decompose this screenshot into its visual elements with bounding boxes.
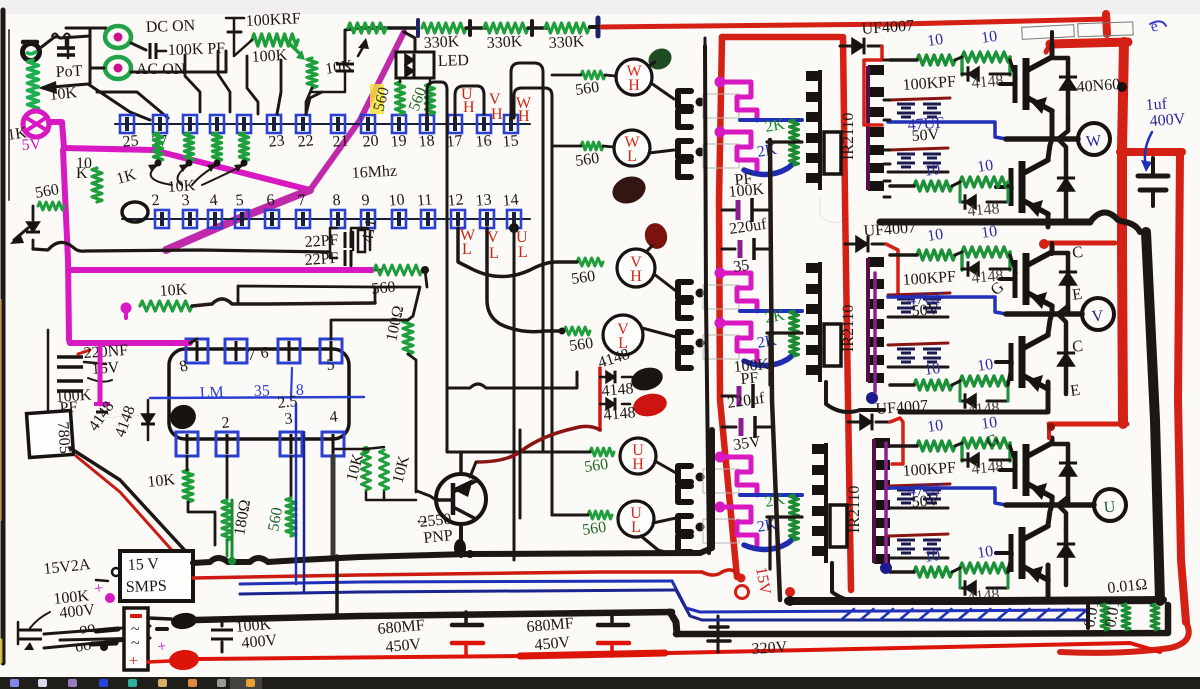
red top second bus — [1050, 42, 1128, 44]
resistor 180 lm — [222, 500, 232, 540]
svg-text:10: 10 — [980, 28, 998, 47]
svg-text:3: 3 — [284, 410, 293, 428]
svg-text:6: 6 — [266, 192, 275, 210]
wire pin3 down — [290, 456, 293, 498]
svg-text:L: L — [627, 148, 637, 165]
svg-text:400V: 400V — [1149, 111, 1186, 130]
resistor 330K a — [348, 23, 386, 33]
wire gate lo V — [1008, 362, 1012, 385]
IGBT high U — [1013, 451, 1018, 489]
svg-text:18: 18 — [418, 132, 435, 150]
svg-text:LED: LED — [438, 52, 470, 70]
wire emitter hi W — [1050, 112, 1055, 139]
svg-text:H: H — [632, 456, 644, 473]
black blob a — [629, 364, 666, 394]
optocoupler pins V2 — [678, 332, 691, 348]
svg-text:16Mhz: 16Mhz — [351, 163, 397, 182]
curve pin13 to VL — [487, 228, 562, 332]
svg-text:50V: 50V — [911, 301, 940, 320]
LED diode 2 — [405, 65, 414, 77]
black bus C — [676, 605, 1168, 634]
optocoupler pins U1 — [678, 466, 691, 482]
IGBT high W — [1013, 65, 1018, 103]
minus sign — [157, 627, 167, 631]
wire diode top hi V — [1052, 251, 1068, 256]
wire top to DC LED — [66, 28, 106, 34]
wire WH blob — [649, 62, 655, 66]
node 15V marker — [737, 574, 746, 583]
cap magenta 100KPF — [94, 402, 110, 406]
wire diode top hi W — [1052, 56, 1068, 61]
svg-text:V: V — [487, 229, 499, 246]
IR2110 U box — [830, 505, 847, 547]
svg-text:100KRF: 100KRF — [245, 10, 301, 30]
label 100K 400V 2 — [717, 624, 720, 644]
output node line W — [1006, 136, 1078, 142]
svg-text:8: 8 — [332, 192, 341, 210]
black blob dc — [170, 611, 198, 630]
svg-text:10K: 10K — [159, 281, 188, 300]
top line seg2 — [466, 26, 486, 30]
IGBT low W — [1009, 168, 1014, 206]
svg-text:4148: 4148 — [971, 458, 1004, 478]
optocoupler pins W1 — [678, 91, 691, 107]
resistor 10K a4 — [362, 452, 371, 490]
arrow tl — [14, 228, 28, 240]
diode 4148 lo U — [965, 581, 976, 595]
svg-text:PoT: PoT — [55, 63, 83, 81]
resistor 10K b4 — [380, 450, 389, 490]
wire pin1 down — [186, 456, 189, 470]
output node line V — [1006, 311, 1082, 317]
svg-text:50V: 50V — [911, 126, 940, 145]
wire collector hi W — [1050, 44, 1055, 56]
left vertical wire — [47, 330, 50, 440]
wire WL to opto — [649, 150, 674, 153]
svg-text:12: 12 — [447, 191, 464, 209]
bridge labels — [130, 614, 142, 618]
resistor 10 c W — [914, 181, 952, 191]
blue wire mid V — [888, 297, 1006, 314]
wire pot to network — [39, 36, 90, 49]
wire cap rail lo V — [888, 366, 948, 369]
wire pin13 dot — [509, 223, 519, 233]
magenta branch down — [98, 343, 103, 404]
diode UF4007 V — [856, 236, 868, 252]
svg-text:560: 560 — [581, 519, 607, 539]
svg-text:100K: 100K — [251, 47, 288, 66]
red bootstrap U — [890, 418, 903, 464]
svg-text:4: 4 — [209, 192, 218, 210]
diode 4148 lo V — [965, 394, 976, 408]
resistor small green tl — [38, 202, 64, 210]
maroon line lo U — [888, 534, 948, 536]
wire 560 net — [375, 287, 420, 320]
dark red S curve — [478, 426, 600, 462]
wire fan 5 — [277, 60, 281, 114]
svg-text:330K: 330K — [548, 33, 585, 52]
wire cap rail hi U — [888, 507, 948, 510]
wire 7805 down — [70, 448, 190, 556]
resistor 560 WH — [581, 71, 605, 79]
junction bar 2 — [468, 21, 472, 35]
wire T W — [768, 142, 771, 194]
shunt top wire — [1096, 600, 1163, 601]
resistor 100K top — [252, 34, 298, 46]
LED diode 1 — [405, 54, 414, 66]
IR2110 W box — [824, 132, 841, 174]
pullup arrows — [151, 166, 172, 185]
black hop over red — [1090, 212, 1140, 232]
resistor 10 c U — [914, 567, 952, 577]
wire cap rail hi W — [888, 121, 948, 124]
red smps out — [193, 572, 702, 578]
hatch end tick — [1086, 604, 1090, 628]
wire gate hi U — [1010, 446, 1016, 464]
black N vertical rail — [1146, 232, 1160, 601]
svg-text:4148: 4148 — [967, 200, 1000, 220]
node U L — [618, 501, 654, 537]
wire 180 down — [226, 540, 229, 556]
svg-text:K: K — [76, 165, 88, 182]
resistor 10 d W — [960, 177, 1008, 187]
svg-text:10: 10 — [926, 31, 944, 50]
node W H — [616, 59, 652, 95]
diode UF4007 U — [860, 414, 872, 430]
svg-text:U: U — [1103, 499, 1116, 517]
red jog to outer — [1120, 148, 1182, 156]
diode 4148 hi V — [968, 262, 979, 276]
wire fan 4 — [247, 56, 258, 114]
wire tl diode — [32, 206, 35, 220]
AC ON LED dot — [114, 64, 123, 73]
purple vertical V — [873, 273, 877, 392]
resistor 2K pair W — [790, 120, 799, 142]
wire emitter hi V — [1050, 307, 1055, 314]
junction cross end — [596, 18, 601, 36]
resistor 560 left — [92, 168, 102, 202]
svg-text:25: 25 — [122, 132, 139, 150]
wire UL down to bus — [641, 536, 668, 553]
DC ON LED dot — [114, 33, 123, 42]
wire led res — [399, 78, 402, 82]
diode 4148 a — [606, 371, 615, 383]
resistor 10K pullup 1 — [154, 133, 163, 161]
red top bus — [602, 19, 1108, 27]
MCU bottom pin rail — [122, 218, 530, 220]
wire gate hi V — [1010, 255, 1016, 273]
svg-text:2K: 2K — [756, 332, 779, 352]
wire emitter hi U — [1050, 498, 1055, 505]
svg-text:560: 560 — [583, 456, 609, 476]
svg-text:7: 7 — [247, 346, 256, 364]
dropper 448 to UH row — [447, 390, 590, 452]
resistor 10K below pot — [28, 60, 39, 110]
junction bar 1 — [416, 20, 420, 36]
wire pin5 up — [331, 320, 408, 339]
crystal 411 — [358, 230, 365, 252]
svg-text:~: ~ — [131, 635, 140, 652]
black top bank stubs W — [884, 59, 890, 62]
resistor 560 lm — [286, 498, 296, 536]
top light strip — [0, 0, 1200, 14]
PNP arrow — [451, 483, 456, 515]
svg-text:4: 4 — [329, 408, 338, 426]
resistor 10 d V — [960, 376, 1008, 386]
cap 100K pf left — [57, 379, 83, 383]
svg-text:V: V — [1091, 308, 1104, 326]
svg-text:H: H — [518, 108, 530, 125]
LM358 body — [169, 349, 349, 439]
svg-text:320V: 320V — [751, 639, 788, 658]
svg-text:330K: 330K — [423, 33, 460, 52]
wire collector hi V — [1050, 243, 1055, 251]
blue hatched bus — [700, 610, 1085, 612]
svg-text:560: 560 — [574, 79, 600, 99]
wire 5V to rail — [49, 122, 310, 190]
wire pin22 bend — [306, 92, 322, 114]
wire fan 3 — [218, 51, 230, 112]
shunt resistor 1 — [1101, 604, 1109, 630]
diode 4148 b — [606, 398, 615, 410]
svg-text:11: 11 — [416, 191, 433, 209]
svg-text:PNP: PNP — [423, 527, 454, 547]
wire diode bot hi U — [1058, 497, 1068, 505]
blue wire V — [740, 309, 802, 313]
svg-text:10: 10 — [980, 223, 998, 242]
svg-text:22PF: 22PF — [304, 250, 339, 269]
wire UL to opto — [653, 518, 676, 523]
resistor 10 c V — [914, 380, 952, 390]
wire diode join lo W — [1058, 139, 1066, 163]
wire 10K tops — [333, 448, 366, 451]
blue wire W — [740, 118, 802, 122]
red bottom bus — [198, 643, 1160, 659]
capacitor at pot — [57, 46, 75, 50]
resistor 10 a W — [917, 55, 955, 65]
svg-text:L: L — [489, 245, 499, 262]
loop pin17 — [455, 86, 484, 118]
MCU pin1 circle — [122, 202, 148, 222]
svg-text:L: L — [631, 519, 641, 536]
svg-text:40N60: 40N60 — [1076, 76, 1121, 96]
left page edge shadow — [1, 10, 6, 663]
wire right net lm — [408, 354, 416, 492]
capacitor 1uf — [1151, 158, 1155, 176]
resistor 560 led2 — [426, 84, 435, 114]
red rail right vertical — [843, 37, 851, 590]
svg-text:AC ON: AC ON — [136, 61, 186, 78]
DC ON LED ring — [105, 26, 131, 48]
svg-text:15 V: 15 V — [127, 555, 160, 574]
wire gate lo U — [1008, 553, 1012, 572]
node W — [1078, 123, 1110, 155]
wire LED top — [404, 32, 415, 52]
cap pair lo V — [897, 348, 915, 351]
wire VH to opto — [654, 274, 676, 291]
wire emitter lo W — [1046, 215, 1051, 227]
svg-text:4148: 4148 — [971, 72, 1004, 92]
blue arrow 1uf — [1145, 132, 1152, 166]
MCU top pin rail blue — [115, 123, 530, 125]
svg-text:10: 10 — [976, 543, 994, 562]
shunt resistor 2 — [1122, 604, 1130, 630]
black U emitter join — [1046, 565, 1051, 601]
resistor 330K d — [545, 23, 589, 33]
loop pin15b — [514, 88, 552, 515]
wire hop lm — [192, 299, 375, 306]
MCU top pins 25..15 — [120, 115, 134, 133]
resistor 2K pair V — [790, 311, 799, 333]
svg-text:H: H — [630, 268, 642, 285]
green bracket W — [960, 57, 963, 75]
MCU bottom pins 1..14 — [155, 210, 169, 228]
node V L — [603, 315, 643, 355]
black emitter bus bottom — [788, 600, 1163, 601]
resistor 10 a V — [917, 250, 955, 260]
blue arc U — [744, 538, 794, 550]
IGBT low U — [1009, 534, 1014, 572]
dropper 543 bend — [543, 451, 565, 453]
svg-text:10: 10 — [926, 226, 944, 245]
wire corner down — [312, 71, 345, 92]
svg-text:↔: ↔ — [414, 511, 430, 528]
svg-text:23: 23 — [268, 132, 285, 150]
green bracket V — [960, 252, 963, 270]
red rail left top corner — [722, 34, 840, 41]
red bottom thick part — [520, 653, 665, 656]
blue verticals — [295, 404, 298, 584]
capacitor 100KPF sw — [149, 43, 152, 59]
SMPS box — [120, 551, 193, 601]
wire gate lo W — [1008, 186, 1012, 189]
IC IR2110 V right pins — [868, 257, 884, 267]
wire stub left hi U — [890, 444, 917, 448]
LED box — [396, 52, 434, 78]
blue step down — [672, 581, 700, 612]
red feed W collector — [1050, 32, 1054, 44]
AC ON LED ring — [105, 57, 131, 79]
wire dc minus — [148, 618, 171, 619]
crystal wires — [351, 228, 368, 240]
resistor 10K lm — [140, 301, 192, 311]
red hook 15V — [702, 570, 738, 577]
maroon line hi U — [888, 484, 950, 486]
svg-text:10: 10 — [923, 161, 941, 180]
diode 4148 lm — [147, 400, 150, 440]
wire gate hi W — [1010, 60, 1016, 78]
pot squiggle label — [52, 34, 70, 39]
junction cap wires — [234, 32, 252, 56]
wire collector lo W — [1048, 139, 1052, 159]
wire stub left lo U — [890, 570, 914, 574]
gray wire pin4 — [331, 456, 336, 556]
cap pair lo W — [897, 153, 915, 156]
svg-text:50V: 50V — [911, 492, 940, 511]
red dot mid — [785, 587, 795, 597]
magenta link U1 — [715, 452, 726, 463]
svg-text:DC ON: DC ON — [146, 17, 196, 36]
svg-text:10K: 10K — [167, 177, 196, 196]
magenta wire to pin8 — [69, 340, 190, 343]
svg-text:10: 10 — [926, 417, 944, 436]
black blob lm — [167, 401, 200, 432]
svg-text:oo: oo — [78, 618, 97, 638]
svg-text:7: 7 — [297, 192, 306, 210]
taskbar icons — [230, 677, 262, 689]
black bus B — [196, 612, 676, 620]
svg-text:22: 22 — [297, 132, 314, 150]
wire cap rail lo W — [888, 171, 948, 174]
svg-text:+: + — [129, 653, 138, 670]
cap pair hi V — [897, 298, 915, 301]
black V emitter join — [900, 382, 1048, 412]
red bootstrap W — [864, 46, 882, 125]
cap pair lo U — [897, 539, 915, 542]
label 560 yellow — [370, 84, 384, 114]
svg-text:560: 560 — [568, 335, 594, 355]
magenta vertical 5V down — [63, 150, 69, 340]
magenta link U2 — [715, 502, 726, 513]
svg-text:L: L — [518, 244, 528, 261]
MCU top pin rail — [115, 123, 530, 125]
wire PNP collector — [459, 524, 463, 556]
svg-text:H: H — [463, 99, 475, 116]
blue arc W — [744, 163, 794, 175]
IC IR2110 W right pins — [868, 65, 884, 75]
resistor 560 VH — [577, 258, 603, 266]
wire emitter lo U — [1046, 581, 1051, 593]
wire V com bottom — [826, 382, 884, 412]
resistor 10 b V — [962, 247, 1010, 257]
maroon line hi V — [888, 293, 950, 295]
green bracket U — [960, 443, 963, 461]
magenta link V2 — [715, 318, 726, 329]
resistor 560 UH — [590, 448, 614, 456]
magenta link W1 — [715, 77, 726, 88]
wire VL to opto — [642, 328, 676, 337]
svg-text:22PF: 22PF — [304, 232, 339, 251]
diode freewheel hi W — [1066, 58, 1071, 118]
resistor 10K pullup 4 — [240, 133, 249, 161]
IC IR2110 V left pins — [806, 263, 820, 273]
resistor 560 mag — [374, 265, 422, 275]
optocoupler pins U2 — [678, 516, 691, 532]
wire PNP emitter — [470, 462, 476, 477]
5V node circle — [23, 111, 49, 137]
svg-text:W: W — [1085, 132, 1102, 150]
node V — [1082, 298, 1114, 330]
diode freewheel hi V — [1066, 253, 1071, 313]
AC plug wires — [44, 626, 150, 648]
black vert 337 — [335, 556, 339, 616]
left orange margin line — [0, 300, 2, 520]
wire 560 WH stub — [552, 74, 581, 77]
svg-text:2K: 2K — [756, 141, 779, 161]
wire base up — [519, 430, 522, 518]
dropper 552 to UL — [552, 514, 588, 517]
wire emitter lo V — [1046, 390, 1051, 402]
arrow up magenta end — [358, 38, 369, 49]
resistor 10 a U — [917, 441, 955, 451]
svg-text:H: H — [628, 77, 640, 94]
potentiometer body — [23, 44, 40, 61]
blue wire mid W — [888, 122, 1006, 139]
IC IR2110 W left pins — [806, 71, 820, 81]
cap 100K mid — [211, 629, 233, 632]
wire cap rail hi V — [888, 316, 948, 319]
cap 100KRF symbol — [226, 17, 244, 20]
